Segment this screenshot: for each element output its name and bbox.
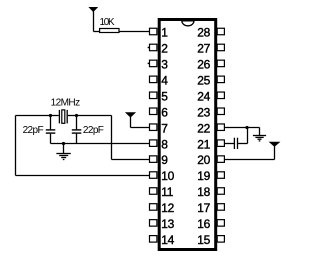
svg-text:21: 21 xyxy=(197,137,210,151)
svg-text:20: 20 xyxy=(197,153,210,167)
svg-text:12MHz: 12MHz xyxy=(51,98,81,109)
svg-text:27: 27 xyxy=(197,42,210,56)
svg-text:4: 4 xyxy=(161,73,168,87)
svg-text:5: 5 xyxy=(161,89,168,103)
svg-text:18: 18 xyxy=(197,185,210,199)
svg-text:19: 19 xyxy=(197,169,210,183)
svg-text:16: 16 xyxy=(197,217,210,231)
svg-text:9: 9 xyxy=(161,153,168,167)
svg-text:10: 10 xyxy=(161,169,174,183)
svg-text:26: 26 xyxy=(197,58,210,72)
svg-text:2: 2 xyxy=(161,42,168,56)
svg-text:8: 8 xyxy=(161,137,168,151)
svg-text:28: 28 xyxy=(197,26,210,40)
svg-text:7: 7 xyxy=(161,121,168,135)
svg-text:12: 12 xyxy=(161,201,174,215)
svg-text:24: 24 xyxy=(197,89,210,103)
svg-text:10K: 10K xyxy=(100,17,115,28)
svg-text:1: 1 xyxy=(161,26,168,40)
svg-text:6: 6 xyxy=(161,105,168,119)
svg-text:22: 22 xyxy=(197,121,210,135)
svg-text:11: 11 xyxy=(161,185,174,199)
svg-text:17: 17 xyxy=(197,201,210,215)
svg-text:3: 3 xyxy=(161,58,168,72)
svg-text:13: 13 xyxy=(161,217,174,231)
svg-text:22pF: 22pF xyxy=(23,125,44,136)
svg-text:25: 25 xyxy=(197,73,210,87)
svg-text:22pF: 22pF xyxy=(83,125,104,136)
svg-text:23: 23 xyxy=(197,105,210,119)
svg-text:14: 14 xyxy=(161,233,174,247)
svg-text:15: 15 xyxy=(197,233,210,247)
